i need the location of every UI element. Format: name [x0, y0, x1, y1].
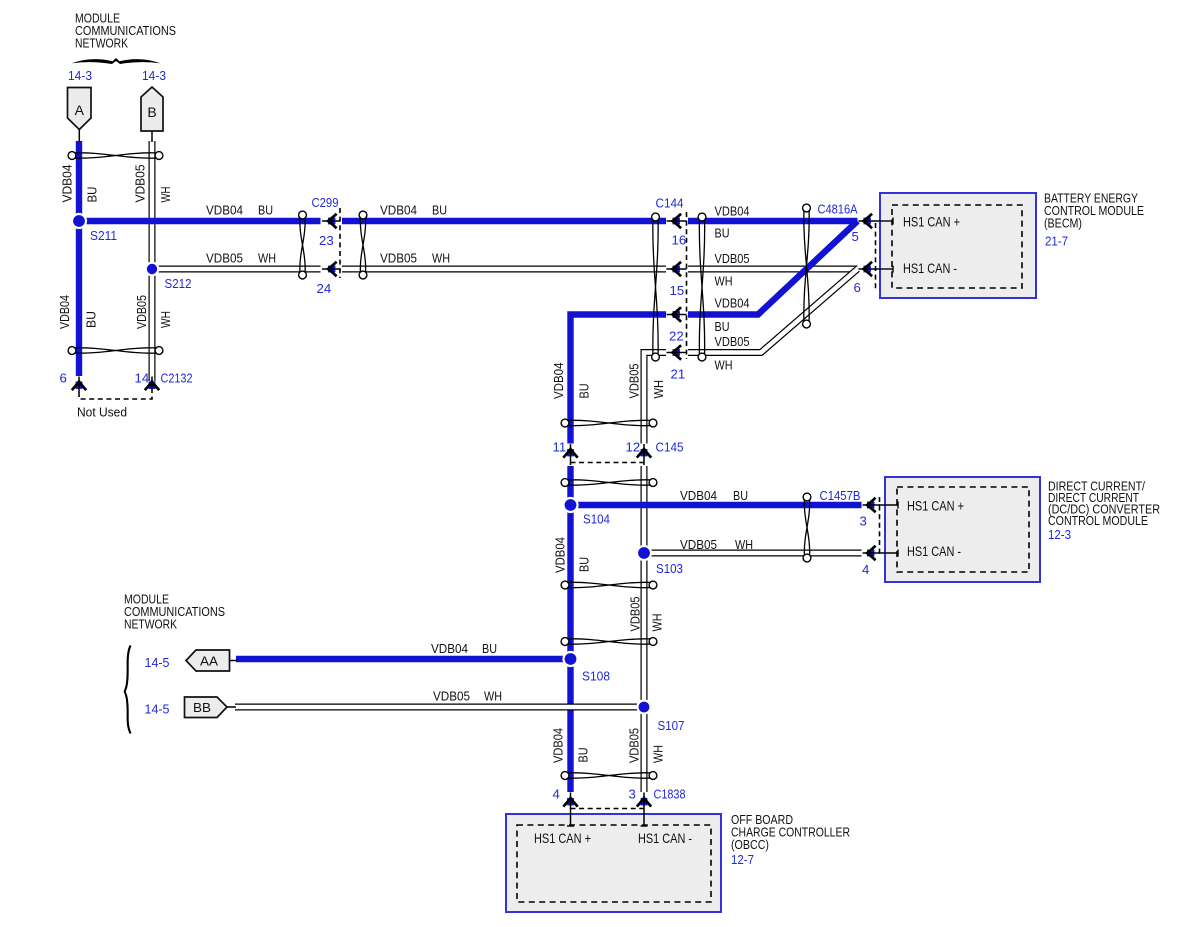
svg-text:HS1 CAN -: HS1 CAN - [903, 261, 957, 276]
wire VDB04 horizontal AA to S108 [236, 656, 571, 662]
twisted pair symbol below A and B [68, 152, 163, 160]
wire VDB04 horizontal C144 to C4816A pin 5 [688, 218, 858, 224]
svg-text:3: 3 [860, 514, 867, 529]
svg-text:22: 22 [669, 329, 684, 344]
svg-text:BU: BU [733, 488, 748, 503]
splice S104 [564, 498, 578, 512]
arrow C2132 pin 14 [145, 377, 159, 393]
svg-text:11: 11 [553, 440, 567, 455]
svg-text:16: 16 [672, 233, 687, 248]
connector C1838 dashed line [571, 808, 645, 810]
wire VDB05 horizontal S103 to C1457B pin 4 [644, 550, 862, 557]
arrow C1838 pin 4 [563, 793, 577, 827]
twisted pair symbol left of C144 [652, 213, 660, 361]
arrow C4816A pin 5 [859, 214, 878, 228]
connector C4816A dashed line [875, 223, 877, 291]
svg-text:HS1 CAN -: HS1 CAN - [907, 544, 961, 559]
wire VDB04 diagonal from C4816A pin 5 down to C144 pin 22 row [688, 221, 858, 315]
svg-text:S107: S107 [658, 718, 685, 733]
svg-text:WH: WH [715, 274, 733, 289]
svg-text:14: 14 [135, 371, 150, 386]
svg-text:12: 12 [626, 440, 641, 455]
wire VDB05 horizontal C299 to C144 pin 15 [342, 266, 666, 273]
arrow C1457B pin 3 [863, 498, 881, 512]
twisted pair symbol above C2132 [68, 347, 163, 355]
svg-text:VDB04: VDB04 [380, 203, 417, 218]
connector AA symbol [186, 650, 230, 671]
svg-text:CONTROL MODULE: CONTROL MODULE [1048, 513, 1148, 528]
wire VDB05 diagonal from C4816A pin 6 down to C144 pin 21 row [688, 269, 858, 353]
brace left of AA and BB [125, 646, 131, 734]
arrow C144 pin 16 [667, 214, 687, 228]
svg-text:BU: BU [715, 319, 730, 334]
svg-text:15: 15 [670, 283, 685, 298]
svg-text:BU: BU [576, 748, 591, 763]
svg-text:VDB05: VDB05 [628, 597, 643, 632]
svg-text:14-5: 14-5 [145, 702, 170, 717]
arrow C1457B pin 4 [863, 546, 881, 560]
connector BB symbol [185, 697, 228, 718]
wire VDB05 vertical from connector B through S212 to C2132 pin 14 [149, 141, 156, 381]
svg-text:S104: S104 [583, 512, 610, 527]
svg-text:S108: S108 [582, 669, 610, 684]
svg-text:VDB04: VDB04 [715, 204, 750, 219]
svg-text:BU: BU [577, 384, 592, 399]
svg-text:VDB05: VDB05 [380, 251, 417, 266]
svg-text:VDB04: VDB04 [60, 165, 75, 203]
svg-text:S212: S212 [165, 276, 192, 291]
svg-text:VDB05: VDB05 [715, 334, 750, 349]
wire VDB05 from C144 pin 21 corner down to C145 pin 12 [644, 353, 666, 444]
svg-text:VDB05: VDB05 [133, 165, 148, 203]
svg-text:(BECM): (BECM) [1044, 216, 1082, 231]
svg-text:VDB05: VDB05 [206, 251, 243, 266]
svg-text:6: 6 [60, 371, 67, 386]
svg-text:VDB05: VDB05 [627, 364, 642, 399]
wire VDB04 from C144 pin 22 corner down to C145 pin 11 [571, 315, 667, 444]
arrow C144 pin 15 [667, 262, 687, 276]
twisted pair symbol left of C1457B [803, 493, 811, 562]
arrow C299 pin 24 [322, 262, 340, 276]
DC/DC pin 3 stub [879, 504, 898, 506]
wire VDB04 vertical C145 through S104 and S108 to C1838 pin 4 [567, 466, 573, 792]
svg-text:C144: C144 [656, 196, 684, 211]
svg-text:BU: BU [482, 641, 497, 656]
arrow C1838 pin 3 [637, 793, 651, 827]
svg-text:4: 4 [553, 787, 560, 802]
module box BECM [880, 193, 1036, 298]
svg-text:WH: WH [432, 251, 450, 266]
svg-text:VDB04: VDB04 [551, 728, 566, 763]
BECM pin 5 stub [877, 220, 893, 222]
svg-text:WH: WH [158, 187, 173, 203]
svg-text:WH: WH [650, 614, 665, 632]
twisted pair symbol left of C299 [299, 211, 307, 279]
svg-text:C1457B: C1457B [820, 488, 861, 503]
wire VDB05 horizontal S212 to C299 pin 24 [152, 266, 321, 273]
svg-text:C299: C299 [312, 195, 339, 210]
svg-text:BU: BU [715, 226, 730, 241]
svg-text:A: A [75, 102, 85, 118]
connector C144 dashed line [686, 212, 688, 359]
splice S211 [72, 214, 86, 228]
svg-text:S211: S211 [90, 228, 117, 243]
BECM pin 6 stub [877, 268, 893, 270]
svg-text:S103: S103 [656, 561, 683, 576]
svg-text:VDB05: VDB05 [433, 689, 470, 704]
svg-text:WH: WH [715, 358, 733, 373]
connector B symbol [141, 87, 163, 131]
svg-text:WH: WH [158, 311, 173, 328]
svg-text:C145: C145 [656, 440, 684, 455]
twisted pair symbol left of C4816A [803, 204, 811, 328]
svg-text:3: 3 [629, 787, 636, 802]
twisted pair symbol below S103 [561, 581, 657, 589]
twisted pair symbol above S108 [561, 638, 657, 646]
connector A symbol [68, 88, 92, 130]
svg-text:B: B [147, 104, 156, 120]
svg-text:23: 23 [319, 233, 334, 248]
svg-text:21-7: 21-7 [1045, 234, 1068, 249]
svg-text:6: 6 [854, 280, 861, 295]
svg-text:BU: BU [85, 187, 100, 203]
svg-text:BU: BU [432, 203, 447, 218]
arrow C144 pin 22 [667, 307, 687, 321]
svg-text:HS1 CAN -: HS1 CAN - [638, 831, 692, 846]
svg-text:VDB04: VDB04 [551, 363, 566, 400]
connector C299 dashed line [339, 208, 341, 278]
arrow C4816A pin 6 [859, 262, 878, 276]
svg-text:C2132: C2132 [161, 371, 193, 386]
svg-text:VDB05: VDB05 [134, 295, 149, 329]
svg-text:VDB04: VDB04 [553, 537, 568, 573]
svg-text:14-3: 14-3 [142, 68, 166, 83]
svg-text:21: 21 [671, 367, 686, 382]
splice S107 [638, 701, 651, 714]
svg-text:VDB04: VDB04 [680, 488, 717, 503]
svg-text:(OBCC): (OBCC) [731, 837, 769, 852]
wire VDB04 horizontal C299 to C144 pin 16 [342, 218, 666, 224]
svg-text:14-3: 14-3 [68, 68, 92, 83]
svg-text:HS1 CAN +: HS1 CAN + [903, 215, 960, 230]
wire VDB04 horizontal S211 to C299 pin 23 [79, 218, 321, 224]
svg-text:BU: BU [577, 557, 592, 572]
wire VDB05 horizontal BB to S107 [235, 704, 644, 711]
svg-text:BU: BU [84, 311, 99, 328]
brace over A and B [72, 58, 161, 64]
svg-text:VDB05: VDB05 [680, 537, 717, 552]
svg-text:HS1 CAN +: HS1 CAN + [907, 499, 964, 514]
svg-text:VDB05: VDB05 [627, 728, 642, 763]
connector C145 dashed line [571, 462, 647, 464]
twisted pair symbol above C145 [561, 419, 657, 427]
svg-text:AA: AA [200, 654, 218, 669]
svg-text:WH: WH [735, 537, 753, 552]
module box DC/DC converter control module [885, 477, 1040, 582]
svg-text:4: 4 [862, 562, 869, 577]
svg-text:WH: WH [258, 251, 276, 266]
wire VDB05 horizontal C144 to C4816A pin 6 [688, 266, 858, 273]
arrow C2132 pin 6 [72, 377, 86, 393]
svg-text:BB: BB [193, 700, 211, 715]
svg-text:12-7: 12-7 [731, 852, 754, 867]
wire VDB04 horizontal S104 to C1457B pin 3 [571, 502, 862, 508]
svg-text:VDB04: VDB04 [431, 641, 468, 656]
svg-text:C1838: C1838 [654, 787, 686, 802]
arrow C145 pin 12 [637, 444, 651, 465]
svg-text:VDB05: VDB05 [715, 251, 750, 266]
svg-text:12-3: 12-3 [1048, 527, 1071, 542]
svg-text:WH: WH [484, 689, 502, 704]
twisted pair symbol right of C144 [698, 213, 706, 361]
module box OBCC [506, 814, 721, 912]
splice S103 [637, 546, 651, 560]
svg-text:WH: WH [651, 380, 666, 399]
svg-text:VDB04: VDB04 [206, 203, 243, 218]
svg-text:5: 5 [852, 229, 859, 244]
arrow C299 pin 23 [322, 214, 340, 228]
svg-text:VDB04: VDB04 [57, 295, 72, 329]
svg-text:HS1 CAN +: HS1 CAN + [534, 831, 591, 846]
svg-text:24: 24 [317, 281, 332, 296]
svg-text:C4816A: C4816A [818, 202, 858, 217]
twisted pair symbol above C1838 [561, 772, 657, 780]
wire VDB04 vertical from connector A through S211 to C2132 pin 6 [76, 141, 82, 376]
splice S108 [564, 652, 578, 666]
svg-text:Not Used: Not Used [77, 405, 127, 420]
connector C1457B dashed line [879, 497, 881, 557]
DC/DC pin 4 stub [879, 552, 898, 554]
svg-text:NETWORK: NETWORK [124, 617, 177, 632]
OBCC pin 3 stub tick [641, 825, 648, 827]
splice S212 [146, 263, 159, 276]
wire VDB05 vertical C145 through S103 and S107 to C1838 pin 3 [641, 466, 648, 792]
arrow C144 pin 21 [667, 345, 687, 359]
arrow C145 pin 11 [563, 444, 577, 465]
OBCC pin 4 stub tick [567, 825, 574, 827]
svg-text:NETWORK: NETWORK [75, 36, 128, 51]
svg-text:BU: BU [258, 203, 273, 218]
twisted pair symbol right of C299 [359, 211, 367, 279]
svg-text:VDB04: VDB04 [715, 296, 750, 311]
svg-text:14-5: 14-5 [145, 655, 170, 670]
twisted pair symbol below C145 [561, 479, 657, 487]
connector C2132 dashed line Not Used [79, 392, 152, 399]
svg-text:WH: WH [651, 745, 666, 763]
